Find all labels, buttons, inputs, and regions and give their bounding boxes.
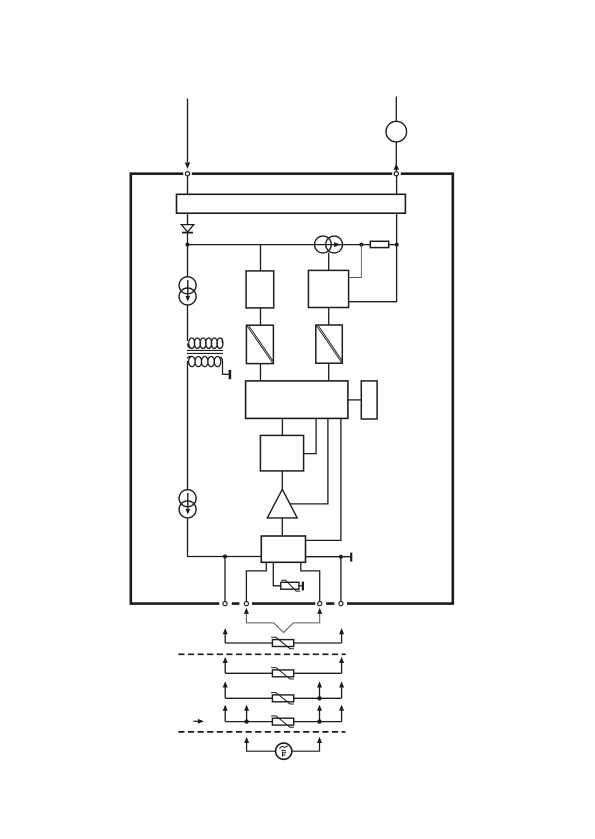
wire bbox=[187, 213, 189, 224]
wire bbox=[328, 363, 330, 381]
wire bbox=[281, 418, 283, 435]
output stage A6 bbox=[261, 536, 305, 562]
wire bbox=[306, 556, 351, 558]
indicator circle P1 bbox=[386, 121, 407, 142]
separator dashed line bbox=[178, 731, 345, 733]
wire bbox=[260, 245, 262, 271]
wire bbox=[187, 361, 189, 490]
busbar block A0 bbox=[177, 194, 406, 213]
test point TP3 bbox=[302, 582, 304, 591]
node bbox=[223, 555, 227, 559]
wire bbox=[247, 742, 276, 751]
range resistor R5 bbox=[225, 686, 341, 704]
node bbox=[359, 243, 363, 247]
wire bbox=[349, 213, 397, 302]
wire bbox=[188, 176, 397, 195]
separator dashed line bbox=[178, 653, 345, 655]
wire bbox=[187, 305, 189, 341]
wire bbox=[281, 518, 283, 536]
wire bbox=[260, 364, 262, 381]
wire bbox=[304, 418, 317, 453]
wire bbox=[224, 557, 226, 602]
wire bbox=[188, 518, 262, 557]
range resistor R4 bbox=[225, 662, 341, 679]
node bbox=[339, 555, 343, 559]
current source G1 bbox=[179, 277, 196, 305]
varistor R2 bbox=[281, 580, 302, 591]
terminal X3 bbox=[223, 602, 227, 606]
isolator U2 bbox=[316, 325, 343, 363]
wire bbox=[349, 245, 362, 278]
terminal X5 bbox=[318, 602, 322, 606]
isolator U1 bbox=[246, 325, 273, 363]
processing block A5 bbox=[260, 435, 303, 471]
converter block A1 bbox=[246, 271, 274, 308]
wire bbox=[246, 562, 266, 601]
wire bbox=[187, 245, 189, 277]
wire bbox=[340, 557, 342, 602]
signal generator G3 bbox=[276, 743, 292, 759]
wire bbox=[281, 471, 283, 489]
wire bbox=[328, 308, 330, 326]
wire bbox=[273, 562, 281, 586]
node bbox=[186, 243, 190, 247]
arrow marker bbox=[193, 720, 199, 722]
node bbox=[395, 243, 399, 247]
input terminal X1 bbox=[185, 172, 189, 176]
wire bbox=[292, 742, 320, 751]
current source G2 bbox=[179, 490, 196, 518]
wire bbox=[290, 418, 328, 504]
control block A3 bbox=[246, 381, 348, 419]
wire bbox=[348, 399, 361, 401]
wire bbox=[306, 418, 341, 540]
range resistor R6 bbox=[225, 710, 341, 728]
power supply block A2 bbox=[308, 270, 348, 307]
diode V1 bbox=[181, 225, 193, 233]
selector bracket bbox=[246, 613, 319, 633]
output line L2 bbox=[395, 97, 397, 172]
current transducer T2 bbox=[315, 236, 343, 253]
range resistor R3 bbox=[225, 633, 341, 649]
wire bbox=[260, 308, 262, 325]
wire bbox=[301, 562, 320, 601]
wire bbox=[188, 233, 397, 245]
terminal X6 bbox=[339, 602, 343, 606]
output terminal X2 bbox=[394, 172, 398, 176]
input line L1 bbox=[187, 99, 189, 163]
resistor R1 bbox=[370, 241, 388, 247]
test point TP2 bbox=[350, 553, 352, 562]
terminal X4 bbox=[244, 602, 248, 606]
enclosure bbox=[131, 172, 453, 605]
test point TP1 bbox=[229, 370, 232, 379]
wire bbox=[328, 253, 330, 271]
amplifier N1 bbox=[267, 489, 297, 518]
transformer T1 bbox=[187, 338, 229, 374]
memory block A4 bbox=[361, 381, 377, 419]
